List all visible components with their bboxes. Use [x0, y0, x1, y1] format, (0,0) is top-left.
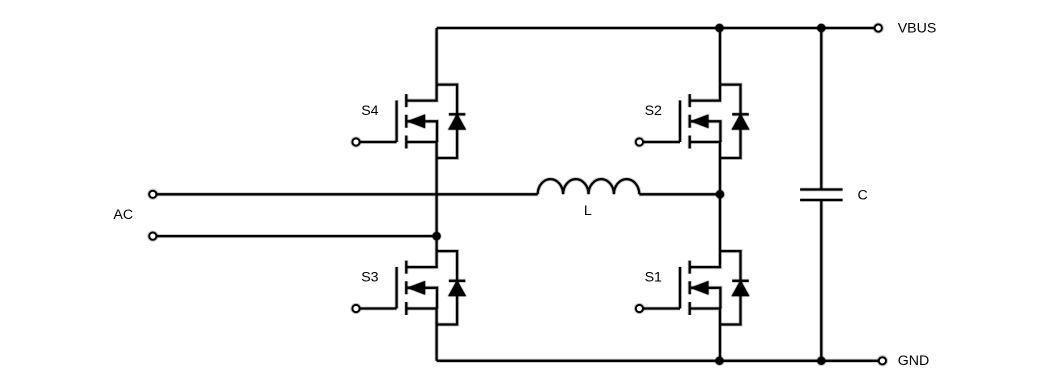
transistor S1 gate terminal	[636, 305, 643, 312]
wire left leg lower	[435, 325, 439, 361]
transistor S3 gate wire	[360, 306, 397, 310]
transistor S1 gate bar	[678, 267, 682, 309]
diode D-S1 cathode bar	[732, 279, 749, 283]
wire left leg upper	[435, 28, 439, 85]
diode D-S2 branch	[720, 85, 741, 158]
transistor S4 gate terminal	[352, 138, 359, 145]
svg-text:S4: S4	[361, 103, 378, 119]
wire top rail (VBUS)	[437, 26, 875, 30]
node junction inductor / right leg	[715, 189, 725, 199]
diode D-S3 branch	[437, 251, 458, 324]
wire capacitor bottom	[819, 200, 823, 361]
wire bottom rail (GND)	[437, 359, 879, 363]
transistor S2 channel bars	[688, 94, 692, 148]
transistor S2 gate wire	[643, 140, 680, 144]
transistor S1 source stub	[690, 309, 720, 325]
transistor S4 gate bar	[395, 100, 399, 142]
diode D-S4 branch	[437, 85, 458, 158]
terminal AC line 1	[149, 191, 156, 198]
wire capacitor top	[819, 28, 823, 190]
transistor S2 gate terminal	[636, 138, 643, 145]
transistor S4 gate wire	[360, 140, 397, 144]
transistor S2 gate bar	[678, 100, 682, 142]
capacitor C top plate	[800, 187, 843, 191]
terminal GND	[879, 357, 886, 364]
transistor S3 gate terminal	[352, 305, 359, 312]
transistor S2 body arrow	[691, 115, 708, 128]
svg-text:C: C	[858, 188, 868, 204]
transistor S4 body arrow	[408, 115, 425, 128]
wire AC line 2 to left leg	[157, 234, 437, 238]
transistor S1 body stub	[691, 288, 721, 309]
wire left leg middle	[435, 158, 439, 251]
transistor S4 drain stub	[406, 85, 436, 101]
svg-text:S2: S2	[645, 103, 662, 119]
node junction top rail / right leg	[715, 23, 725, 33]
wire right leg middle	[718, 158, 722, 251]
transistor S2 source stub	[690, 142, 720, 158]
wire right leg upper	[718, 28, 722, 85]
inductor L	[538, 179, 640, 194]
diode D-S2 cathode bar	[732, 112, 749, 116]
svg-text:L: L	[584, 203, 592, 219]
transistor S1 gate wire	[643, 306, 680, 310]
diode D-S3 triangle	[449, 281, 466, 296]
terminal VBUS	[875, 24, 882, 31]
svg-text:VBUS: VBUS	[898, 20, 937, 36]
node junction top rail / capacitor	[816, 23, 826, 33]
diode D-S2 triangle	[732, 114, 749, 129]
transistor S1 body arrow	[691, 282, 708, 295]
svg-text:GND: GND	[898, 353, 930, 369]
transistor S3 gate bar	[395, 267, 399, 309]
diode D-S1 triangle	[732, 281, 749, 296]
terminal AC line 2	[149, 233, 156, 240]
diode D-S3 cathode bar	[449, 279, 466, 283]
wire inductor to right leg	[639, 192, 720, 196]
svg-text:S1: S1	[645, 270, 662, 286]
transistor S1 channel bars	[688, 261, 692, 315]
transistor S2 body stub	[691, 121, 721, 142]
diode D-S4 cathode bar	[449, 112, 466, 116]
transistor S4 source stub	[406, 142, 436, 158]
transistor S3 body stub	[408, 288, 438, 309]
transistor S3 body arrow	[408, 282, 425, 295]
transistor S3 drain stub	[406, 251, 436, 267]
transistor S2 drain stub	[690, 85, 720, 101]
wire right leg lower	[718, 325, 722, 361]
wire AC line 1 to inductor	[157, 192, 538, 196]
transistor S1 drain stub	[690, 251, 720, 267]
svg-text:S3: S3	[361, 270, 378, 286]
node junction bottom rail / right leg	[715, 356, 725, 366]
svg-text:AC: AC	[113, 207, 133, 223]
transistor S4 body stub	[408, 121, 438, 142]
transistor S3 source stub	[406, 309, 436, 325]
diode D-S1 branch	[720, 251, 741, 324]
transistor S3 channel bars	[404, 261, 408, 315]
capacitor C bottom plate	[800, 198, 843, 202]
node junction AC line 2 / left leg	[432, 231, 442, 241]
diode D-S4 triangle	[449, 114, 466, 129]
node junction bottom rail / capacitor	[816, 356, 826, 366]
transistor S4 channel bars	[404, 94, 408, 148]
